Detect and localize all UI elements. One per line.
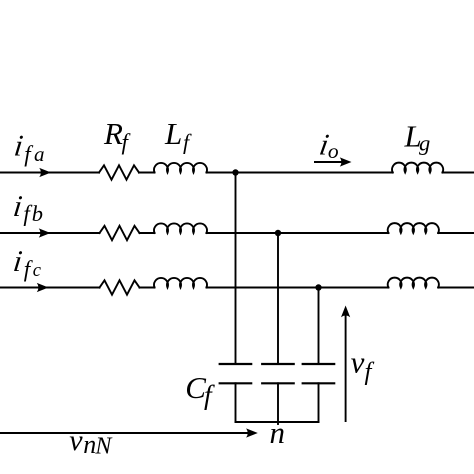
- svg-text:n: n: [83, 430, 96, 459]
- svg-text:i: i: [12, 244, 25, 278]
- inductor L_f phase a: [154, 163, 207, 173]
- svg-text:c: c: [33, 261, 42, 281]
- wire node n bus bar: [236, 421, 319, 423]
- svg-text:g: g: [419, 130, 430, 155]
- svg-text:b: b: [32, 201, 43, 226]
- svg-text:L: L: [164, 116, 182, 151]
- node C junction dot: [315, 284, 321, 290]
- wire phase c left segment: [0, 287, 100, 289]
- wire vertical from node B to capacitor 2: [277, 233, 279, 364]
- label i_fa: [12, 129, 44, 167]
- node B junction dot: [275, 230, 281, 236]
- svg-text:N: N: [94, 433, 113, 459]
- resistor R_f phase a: [99, 165, 139, 179]
- arrow i_fb on phase b wire: [39, 228, 51, 237]
- wire from capacitor 3 down to node n bus: [318, 383, 320, 422]
- arrow i_o annotation: [314, 157, 352, 166]
- resistor R_f phase b: [100, 226, 140, 240]
- label L_g: [404, 119, 431, 156]
- label v_nN: [69, 424, 113, 460]
- svg-text:f: f: [24, 142, 34, 167]
- wire phase b right segment: [438, 232, 474, 234]
- label C_f: [185, 370, 215, 410]
- arrow v_nN annotation: [0, 428, 258, 437]
- arrow i_fa on phase a wire: [39, 168, 51, 177]
- svg-text:f: f: [183, 129, 192, 154]
- capacitor C_f phase c: [303, 364, 335, 383]
- svg-text:R: R: [103, 116, 123, 151]
- svg-text:f: f: [365, 359, 375, 386]
- inductor L_f phase b: [154, 223, 207, 233]
- wire phase b left segment: [0, 232, 100, 234]
- wire phase c between R_f and L_f: [140, 287, 155, 289]
- svg-text:a: a: [34, 142, 45, 166]
- wire vertical from node A to capacitor 1: [235, 173, 237, 365]
- capacitor C_f phase a: [220, 364, 252, 383]
- svg-text:f: f: [204, 379, 215, 410]
- label i_fb: [12, 189, 44, 226]
- wire phase a right segment: [443, 172, 474, 174]
- wire from capacitor 2 down to node n bus: [277, 383, 279, 424]
- svg-text:o: o: [328, 139, 339, 163]
- node A junction dot: [232, 169, 238, 175]
- svg-text:i: i: [12, 189, 25, 223]
- svg-text:f: f: [122, 129, 132, 154]
- label v_f: [351, 344, 375, 385]
- wire phase b between R_f and L_f: [140, 232, 155, 234]
- inductor L_g phase b: [388, 223, 439, 233]
- arrow i_fc on phase c wire: [37, 283, 49, 292]
- capacitor C_f phase b: [262, 364, 294, 383]
- wire from capacitor 1 down to node n bus: [235, 383, 237, 422]
- wire phase a between R_f and L_f: [139, 172, 155, 174]
- svg-text:n: n: [270, 415, 286, 450]
- svg-text:i: i: [12, 129, 25, 163]
- label i_o: [317, 128, 339, 164]
- wire vertical from node C to capacitor 3: [318, 288, 320, 365]
- wire phase a middle segment: [207, 172, 393, 174]
- inductor L_f phase c: [154, 278, 207, 288]
- svg-text:v: v: [351, 344, 365, 379]
- inductor L_g phase a: [392, 163, 443, 173]
- wire phase a left segment: [0, 172, 99, 174]
- wire phase c right segment: [438, 287, 474, 289]
- inductor L_g phase c: [388, 278, 439, 288]
- wire phase b middle segment: [207, 232, 389, 234]
- label L_f: [164, 116, 192, 154]
- label i_fc: [12, 244, 42, 281]
- wire phase c middle segment: [207, 287, 389, 289]
- svg-text:v: v: [69, 424, 83, 457]
- arrow v_f annotation: [341, 306, 350, 423]
- label R_f: [103, 116, 132, 155]
- resistor R_f phase c: [100, 280, 140, 294]
